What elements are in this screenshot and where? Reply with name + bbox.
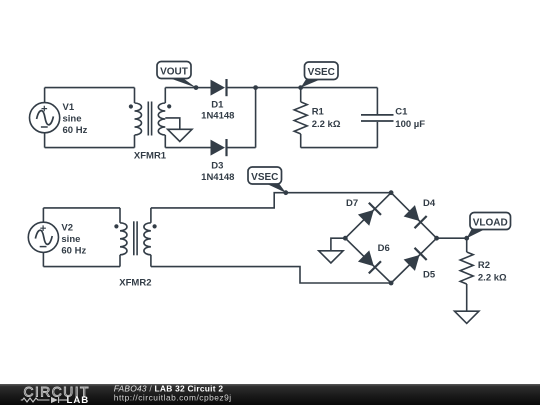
- bridge edge D6: [345, 238, 391, 283]
- wire XFMR1 center tap: [165, 118, 180, 129]
- wire VOUT node to D1: [196, 87, 212, 89]
- node VOUT junction dot: [194, 85, 199, 90]
- wire secondary top to VOUT node: [165, 87, 196, 89]
- resistor R1: [294, 102, 307, 134]
- diode D4: [403, 205, 427, 229]
- wire D1/D3 join vertical: [255, 88, 257, 148]
- voltage source V1: [29, 103, 59, 133]
- svg-text:D1: D1: [211, 99, 224, 110]
- diode D3: [211, 139, 228, 156]
- wire V2 bottom: [43, 266, 120, 268]
- node bridge bottom dot: [389, 281, 394, 286]
- svg-text:1N4148: 1N4148: [201, 172, 234, 183]
- node D1/D3 junction dot: [253, 85, 258, 90]
- svg-text:VSEC: VSEC: [251, 172, 278, 183]
- svg-text:100 µF: 100 µF: [395, 119, 425, 130]
- wire V1 left lower: [44, 133, 46, 148]
- svg-text:VSEC: VSEC: [308, 67, 335, 78]
- ground XFMR1: [168, 129, 192, 141]
- node VLOAD dot: [464, 236, 469, 241]
- bridge edge D7: [345, 193, 391, 239]
- capacitor C1: [361, 88, 394, 148]
- svg-text:sine: sine: [61, 234, 80, 245]
- node bridge right dot: [434, 236, 439, 241]
- bridge edge D4: [391, 193, 437, 239]
- svg-text:2.2 kΩ: 2.2 kΩ: [312, 119, 341, 130]
- voltage source V2: [28, 222, 58, 252]
- wire V2 left lower: [42, 252, 44, 266]
- diode D5: [403, 247, 427, 271]
- wire V2 top: [43, 207, 120, 209]
- svg-text:1N4148: 1N4148: [201, 111, 234, 122]
- svg-text:VOUT: VOUT: [160, 66, 188, 77]
- node bridge left dot: [343, 236, 348, 241]
- wire secondary bottom to D3: [165, 147, 212, 149]
- wire D3 to junction: [227, 147, 256, 149]
- wire V1 bottom: [45, 147, 135, 149]
- svg-text:R2: R2: [478, 260, 490, 271]
- svg-text:60 Hz: 60 Hz: [61, 245, 86, 256]
- svg-text:LAB: LAB: [67, 395, 90, 405]
- wire top rail to C1: [256, 87, 378, 89]
- svg-text:http://circuitlab.com/cpbez9j: http://circuitlab.com/cpbez9j: [114, 392, 232, 402]
- wire R1 top lead: [300, 88, 302, 102]
- svg-text:VLOAD: VLOAD: [473, 217, 508, 228]
- resistor R2: [460, 252, 473, 284]
- svg-text:D7: D7: [346, 198, 358, 209]
- svg-text:D6: D6: [378, 243, 390, 254]
- label VSEC flag (top): [301, 62, 338, 88]
- node bridge top dot: [389, 190, 394, 195]
- svg-text:D4: D4: [423, 198, 436, 209]
- wire V1 left upper: [44, 88, 46, 103]
- svg-text:sine: sine: [63, 114, 82, 125]
- wire bridge left to ground: [331, 238, 345, 251]
- wire D1 to junction: [227, 87, 256, 89]
- svg-text:R1: R1: [312, 107, 325, 118]
- svg-text:D3: D3: [211, 161, 223, 172]
- wire R1 bottom lead: [300, 134, 302, 148]
- svg-text:D5: D5: [423, 269, 436, 280]
- node VSEC junction dot: [298, 85, 303, 90]
- wire R2 top lead: [466, 238, 468, 252]
- logo diode glyph: [51, 397, 58, 403]
- transformer XFMR2: [114, 208, 156, 267]
- svg-text:C1: C1: [395, 107, 408, 118]
- svg-text:XFMR1: XFMR1: [134, 151, 167, 162]
- wire bottom rail R1 to C1: [301, 147, 378, 149]
- diode D7: [358, 202, 382, 226]
- svg-text:XFMR2: XFMR2: [119, 277, 151, 288]
- diode D6: [358, 250, 382, 274]
- wire VSEC node to bridge top: [286, 192, 391, 194]
- transformer XFMR1: [129, 88, 172, 148]
- svg-text:60 Hz: 60 Hz: [63, 125, 88, 136]
- node VSEC2 junction dot: [283, 190, 288, 195]
- label VSEC flag (bottom): [248, 167, 286, 193]
- svg-text:2.2 kΩ: 2.2 kΩ: [478, 272, 507, 283]
- diode D1: [211, 79, 228, 96]
- svg-text:V2: V2: [61, 222, 73, 233]
- svg-text:V1: V1: [63, 102, 75, 113]
- label VLOAD flag: [467, 213, 511, 239]
- wire secondary top to VSEC node: [151, 193, 286, 208]
- wire R2 bottom lead: [466, 284, 468, 311]
- wire bridge right to VLOAD node: [437, 237, 467, 239]
- ground bridge left: [319, 251, 343, 263]
- logo waveform: [21, 397, 67, 403]
- label VOUT flag: [157, 62, 196, 88]
- wire V1 top: [45, 87, 135, 89]
- wire V2 left upper: [42, 208, 44, 222]
- footer bar: [0, 384, 540, 405]
- ground R2: [455, 311, 479, 323]
- wire secondary bottom to bridge bottom: [151, 267, 391, 283]
- bridge edge D5: [391, 238, 437, 283]
